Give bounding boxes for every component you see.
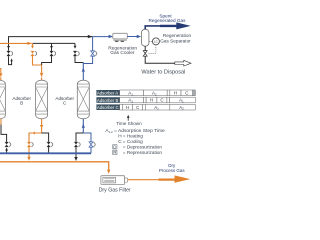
pipe: vessel A top valve line (black) bbox=[9, 56, 12, 64]
valve B5 (blue outline, bottom right of adsorber C) bbox=[89, 142, 93, 147]
arrow up on adsorber C top line bbox=[82, 68, 85, 72]
actuator of B4 bbox=[78, 143, 80, 147]
svg-text:C: C bbox=[136, 105, 139, 110]
arrow into separator (blue) bbox=[137, 35, 141, 38]
pipe: adsorber A bottom elbow (black) bbox=[1, 125, 7, 142]
arrow up below valve B1 bbox=[5, 148, 8, 151]
svg-text:= Cooling: = Cooling bbox=[123, 139, 143, 144]
pipe: V4 elbow to adsorber C drop (black) bbox=[75, 56, 83, 62]
legend box around R bbox=[113, 150, 117, 154]
cycle table row labels bbox=[96, 90, 119, 110]
pipe: V2 outlet elbow to adsorber B (orange) bbox=[33, 56, 42, 73]
valve B2 (orange, bottom adsorber B) bbox=[27, 142, 31, 147]
pipe: adsorber B tee right (black) bbox=[42, 133, 49, 142]
pipe: adsorber A bottom outlet (orange stub) bbox=[0, 119, 2, 125]
svg-text:Adsorber C: Adsorber C bbox=[97, 105, 119, 110]
svg-text:Regenerated Gas: Regenerated Gas bbox=[148, 18, 186, 23]
svg-text:Gas Separator: Gas Separator bbox=[160, 38, 191, 43]
pipe: adsorber C tee right (blue) bbox=[83, 133, 91, 142]
valve V6 (water drain, outline) bbox=[143, 51, 147, 57]
pipe: V5 elbow to adsorber C drop (blue) bbox=[83, 56, 92, 63]
valve B4 (black, bottom left of adsorber C) bbox=[74, 142, 78, 147]
actuator of B3 bbox=[51, 143, 53, 147]
arrow down into filter (orange) bbox=[107, 170, 110, 174]
svg-text:= Depressurization: = Depressurization bbox=[123, 144, 163, 149]
regeneration gas cooler E1 bbox=[113, 33, 128, 42]
pipe: B3 to blue header bbox=[48, 147, 50, 153]
svg-text:Dry Gas Filter: Dry Gas Filter bbox=[99, 187, 131, 193]
svg-text:= Repressurization: = Repressurization bbox=[123, 150, 163, 155]
svg-text:H: H bbox=[150, 98, 153, 103]
actuator of B2 bbox=[31, 143, 33, 147]
pipe: feed header orange (y43.4) bbox=[0, 42, 32, 44]
pipe: feed header black continuation (y43.4) bbox=[33, 42, 76, 44]
pipe: V3 elbow to adsorber B drop (black) bbox=[42, 56, 52, 65]
svg-text:B: B bbox=[20, 101, 23, 106]
pipe: adsorber B bottom to tee (orange) bbox=[35, 128, 42, 133]
arrow feed orange right bbox=[27, 42, 32, 45]
time shown marker arrow bbox=[127, 118, 129, 121]
pipe: dry gas header (orange) bbox=[0, 162, 109, 170]
pipe: blue line to cooler bbox=[93, 36, 112, 38]
instrument LC circle bbox=[149, 40, 152, 42]
svg-text:Water to Disposal: Water to Disposal bbox=[141, 69, 185, 75]
svg-text:H: H bbox=[118, 134, 121, 139]
cycle table row A cells bbox=[120, 90, 196, 96]
pipe: valve V3 drop (black) bbox=[51, 43, 53, 51]
legend bbox=[105, 128, 165, 155]
pipe: adsorber C bottom drop (blue) bbox=[82, 119, 84, 133]
pipe: adsorber C tee left (black) bbox=[76, 133, 83, 142]
arrow down on adsorber B bottom line bbox=[40, 125, 43, 129]
fat outline arrow: water to disposal bbox=[175, 60, 191, 66]
arrow on header1 (black, right) bbox=[88, 35, 93, 38]
arrow down above valve V1 bbox=[7, 46, 10, 49]
actuator of V3 bbox=[54, 52, 56, 56]
svg-text:C: C bbox=[185, 90, 188, 95]
adsorber C vessel bbox=[77, 80, 89, 119]
pipe: cooler to separator (blue) bbox=[127, 36, 137, 38]
arrow into cooler (blue) bbox=[109, 35, 113, 38]
pipe: B2 down through blue header (orange) bbox=[28, 147, 30, 157]
adsorber B vessel bbox=[36, 80, 48, 119]
pipe: separator top to spent gas line (navy) bbox=[144, 26, 160, 30]
pipe: filter outlet (orange) bbox=[128, 179, 159, 181]
svg-text:= Heating: = Heating bbox=[123, 134, 144, 139]
arrow down above valve V4 bbox=[74, 46, 77, 49]
stub into adsorber B dome bbox=[41, 77, 43, 80]
pipe: B5 to blue header end bbox=[90, 147, 92, 153]
regeneration gas separator drum bbox=[142, 29, 149, 46]
arrow up stub near valve V1 bbox=[10, 58, 12, 61]
actuator of V4 bbox=[77, 52, 79, 56]
svg-text:H: H bbox=[174, 90, 177, 95]
fat arrow: spent regenerated gas bbox=[160, 22, 191, 29]
cycle table cell texts bbox=[126, 90, 188, 110]
cycle table row B cells bbox=[120, 97, 196, 103]
arrow left at tee (orange) bbox=[32, 132, 35, 135]
arrow down into orange header bbox=[27, 157, 30, 161]
pipe: drain elbow to disposal arrow bbox=[145, 56, 175, 63]
valve V2 (orange, feed to adsorber B) bbox=[31, 51, 35, 56]
actuator of V2 bbox=[35, 52, 37, 56]
svg-text:Gas Cooler: Gas Cooler bbox=[110, 50, 135, 56]
svg-text:Adsorber B: Adsorber B bbox=[97, 98, 119, 103]
pipe: B4 down through blue header (black) bbox=[75, 147, 77, 157]
actuator of B5 bbox=[93, 143, 95, 147]
pipe: adsorber C top drop (blue) bbox=[82, 63, 84, 81]
arrow up on adsorber C bottom line bbox=[82, 124, 85, 128]
dashed signal line LC to valve bbox=[148, 45, 156, 53]
valve V5 (blue outline, right of adsorber C) bbox=[91, 51, 95, 56]
valve V1 (black, top of adsorber A) bbox=[7, 51, 11, 56]
pipe: adsorber B bottom drop (orange) bbox=[41, 119, 43, 125]
fat arrow: dry process gas (orange) bbox=[159, 175, 191, 182]
svg-text:C: C bbox=[160, 98, 163, 103]
valve B3 (black, bottom right of adsorber B) bbox=[47, 142, 51, 147]
pipe: vessel A top feed drop (orange) bbox=[0, 69, 2, 74]
arrow down into adsorber A bbox=[0, 73, 3, 77]
legend box around D bbox=[113, 145, 117, 149]
dry gas filter F1 bbox=[101, 176, 128, 185]
actuator of B1 bbox=[9, 143, 11, 147]
pipe: regen supply header (blue, thick) bbox=[0, 152, 91, 154]
pipe: blue riser corner at x92.6 bbox=[92, 37, 94, 51]
adsorber A vessel bbox=[0, 80, 5, 119]
arrow big down into adsorber B bbox=[40, 73, 43, 78]
pipe: regen outlet header (black, y36.6) bbox=[9, 37, 93, 51]
valve V4 (black, left of adsorber C) bbox=[73, 51, 77, 56]
svg-text:Adsorber A: Adsorber A bbox=[97, 91, 118, 96]
svg-text:Time Shown: Time Shown bbox=[116, 121, 142, 126]
arrow down above valve V3 bbox=[50, 46, 53, 49]
pipe: feed header corner down at x75 (black) bbox=[74, 43, 76, 45]
valve V3 (black, right of adsorber B) bbox=[50, 51, 54, 56]
svg-text:H: H bbox=[126, 105, 129, 110]
arrow down into orange header (black) bbox=[74, 157, 77, 161]
pipe: feed drop to valve V2 (orange) bbox=[32, 43, 34, 45]
svg-text:Process Gas: Process Gas bbox=[159, 168, 186, 173]
actuator of V5 bbox=[95, 52, 97, 56]
arrow down above valve V2 bbox=[31, 46, 34, 49]
pipe: tee to valve B2 (orange) bbox=[29, 133, 32, 142]
stub into adsorber A dome bbox=[0, 77, 2, 80]
pipe: separator bottom drop bbox=[144, 46, 146, 51]
valve B1 (black, bottom adsorber A) bbox=[5, 142, 9, 147]
cycle table row C cells bbox=[120, 104, 196, 110]
actuator of V1 bbox=[11, 52, 13, 56]
pipe: B1 to blue header bbox=[6, 150, 8, 154]
